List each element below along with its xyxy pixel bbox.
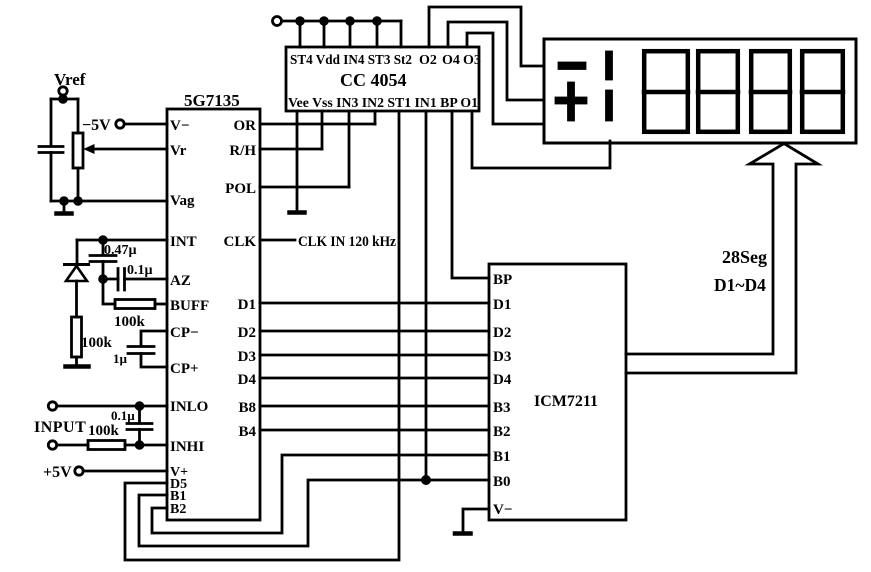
svg-text:D1~D4: D1~D4 xyxy=(714,275,766,295)
wire Vss stub xyxy=(321,111,324,149)
svg-text:ICM7211: ICM7211 xyxy=(534,393,598,410)
IC U3 ICM7211 body xyxy=(489,264,626,520)
terminal top rail xyxy=(273,17,282,26)
potentiometer RP1 xyxy=(73,133,83,168)
IC U2 CC4054 body xyxy=(286,47,479,111)
svg-text:28Seg: 28Seg xyxy=(722,247,767,267)
svg-text:D3: D3 xyxy=(493,349,511,365)
ground below Vref divider xyxy=(63,201,66,212)
capacitor C2 0.47u xyxy=(90,256,116,262)
wire ST4 stub xyxy=(299,21,302,47)
wire B8 to B3 xyxy=(260,405,489,408)
wire top rail xyxy=(282,20,402,23)
svg-text:Vee Vss IN3 IN2 ST1 IN1 BP O1: Vee Vss IN3 IN2 ST1 IN1 BP O1 xyxy=(288,96,478,111)
terminal -5V xyxy=(116,120,124,128)
svg-text:D3: D3 xyxy=(238,349,256,365)
ground below ICM7211 xyxy=(455,531,471,536)
wire BP CC4054 to ICM7211 xyxy=(452,111,489,278)
svg-text:O3: O3 xyxy=(463,53,481,68)
svg-text:B2: B2 xyxy=(170,502,186,517)
wire Vdd stub xyxy=(323,21,326,47)
capacitor C2 0.47u lead xyxy=(102,240,105,255)
svg-text:0.1µ: 0.1µ xyxy=(127,263,153,278)
capacitor C1 xyxy=(39,147,63,153)
wire CP- xyxy=(141,331,167,346)
diode VD1 xyxy=(65,263,89,266)
capacitor C2 lower lead xyxy=(102,262,105,280)
wire O1 to display backplane xyxy=(472,111,610,168)
wire O3 to display xyxy=(467,33,544,124)
capacitor C4 1u xyxy=(128,347,154,354)
wire right branch lower xyxy=(77,168,80,201)
svg-text:R/H: R/H xyxy=(229,143,256,159)
svg-text:POL: POL xyxy=(225,181,256,197)
wire O2 to display xyxy=(429,7,544,66)
wire POL to IN3 xyxy=(260,186,349,189)
svg-text:O2: O2 xyxy=(419,53,437,68)
LCD digit D1 xyxy=(644,51,688,132)
LCD display DS1 body xyxy=(544,39,856,143)
wire left branch upper xyxy=(50,99,53,146)
wire CP+ xyxy=(141,354,167,368)
wire St2 stub xyxy=(400,21,403,47)
svg-text:B3: B3 xyxy=(493,400,511,416)
node IN4 rail junction xyxy=(347,18,354,25)
svg-text:BUFF: BUFF xyxy=(170,298,209,314)
wire left branch lower xyxy=(50,153,53,202)
svg-text:CP+: CP+ xyxy=(170,361,199,377)
svg-text:D1: D1 xyxy=(238,297,256,313)
svg-text:D1: D1 xyxy=(493,297,511,313)
svg-text:0.1µ: 0.1µ xyxy=(111,408,135,423)
svg-text:V−: V− xyxy=(493,502,512,518)
svg-text:B2: B2 xyxy=(493,424,511,440)
wire INHI right xyxy=(125,444,167,447)
LCD digit D3 xyxy=(751,51,790,132)
svg-text:Vr: Vr xyxy=(170,143,187,159)
svg-text:OR: OR xyxy=(234,118,257,134)
wire IN4 stub xyxy=(349,21,352,47)
svg-text:INT: INT xyxy=(170,234,197,250)
wire D3 bus xyxy=(260,354,489,357)
svg-text:100k: 100k xyxy=(114,314,146,330)
node IN1-B0 junction xyxy=(422,476,429,483)
wire B2 route xyxy=(152,455,489,533)
wire INHI left xyxy=(57,444,88,447)
svg-text:0.47µ: 0.47µ xyxy=(104,243,137,258)
svg-text:+5V: +5V xyxy=(43,464,72,481)
wire CLK stub xyxy=(260,239,295,242)
ground below Vee xyxy=(290,210,305,215)
node Vdd rail junction xyxy=(321,18,328,25)
wire INT left drop xyxy=(76,240,79,263)
node ST4 rail junction xyxy=(297,18,304,25)
wire Vref stub xyxy=(62,95,65,99)
wire INT xyxy=(77,239,167,242)
svg-text:Vag: Vag xyxy=(170,193,195,209)
terminal INLO xyxy=(48,402,56,410)
svg-text:AZ: AZ xyxy=(170,273,191,289)
wiper arrowhead xyxy=(85,145,95,153)
node INHI junction xyxy=(136,442,143,449)
wire AZ to C3 xyxy=(103,278,118,281)
svg-text:INPUT: INPUT xyxy=(34,419,86,436)
svg-text:100k: 100k xyxy=(88,423,120,439)
wire AZ down to R2 xyxy=(103,279,115,304)
svg-text:1µ: 1µ xyxy=(113,351,128,366)
resistor R2 100k xyxy=(115,300,155,309)
svg-text:INHI: INHI xyxy=(170,439,204,455)
node Vag-ground junction xyxy=(61,198,68,205)
wire IN2 stub xyxy=(374,111,377,124)
terminal INHI xyxy=(48,441,56,449)
wire ST3 stub xyxy=(376,21,379,47)
capacitor C5 0.1u leads xyxy=(138,406,141,445)
node ST3 rail junction xyxy=(374,18,381,25)
svg-text:CLK IN 120 kHz: CLK IN 120 kHz xyxy=(298,234,396,250)
svg-text:5G7135: 5G7135 xyxy=(184,91,240,110)
node AZ junction xyxy=(100,276,107,283)
resistor R1 100k xyxy=(72,317,82,357)
wire IN3 stub xyxy=(348,111,351,187)
svg-text:D4: D4 xyxy=(238,372,257,388)
svg-text:B4: B4 xyxy=(238,424,256,440)
svg-text:B0: B0 xyxy=(493,474,511,490)
wire IN1 drop xyxy=(425,111,428,480)
node Vref junction xyxy=(60,96,67,103)
svg-text:Vref: Vref xyxy=(54,70,86,89)
svg-text:B8: B8 xyxy=(238,400,256,416)
IC U1 5G7135 body xyxy=(167,109,260,520)
svg-text:INLO: INLO xyxy=(170,399,208,415)
capacitor C5 0.1u xyxy=(127,424,152,430)
wire D4 bus xyxy=(260,377,489,380)
LCD plus segment xyxy=(556,98,586,103)
wire OR to IN2 xyxy=(260,123,375,126)
svg-text:D2: D2 xyxy=(238,325,256,341)
svg-text:V−: V− xyxy=(170,118,189,134)
wire segment bus to arrow xyxy=(626,144,818,374)
wire +5V to V+ xyxy=(83,470,167,473)
wire Vref top split xyxy=(51,98,78,101)
node INT junction xyxy=(100,237,107,244)
svg-text:ST4 Vdd IN4 ST3 St2: ST4 Vdd IN4 ST3 St2 xyxy=(290,53,412,68)
ground below R1 xyxy=(66,364,89,369)
wire B1 route xyxy=(139,480,489,546)
wire Vr wiper xyxy=(92,148,167,151)
resistor R3 100k xyxy=(88,441,125,450)
svg-text:100k: 100k xyxy=(81,335,113,351)
LCD digit D2 xyxy=(698,51,738,132)
svg-text:CC 4054: CC 4054 xyxy=(340,70,407,90)
wire O4 to display xyxy=(448,22,544,100)
wire -5V to V- pin xyxy=(124,123,167,126)
wire Vee to ground xyxy=(296,111,299,211)
terminal +5V xyxy=(75,467,83,475)
wire V- to ground xyxy=(463,509,489,532)
svg-text:D4: D4 xyxy=(493,372,512,388)
wire D2 bus xyxy=(260,330,489,333)
node INLO junction xyxy=(136,403,143,410)
svg-text:CP−: CP− xyxy=(170,325,199,341)
svg-text:BP: BP xyxy=(493,272,512,288)
node pot-Vag junction xyxy=(75,198,82,205)
svg-text:O4: O4 xyxy=(442,53,460,68)
wire ST1 to D5 route xyxy=(125,111,399,560)
wire D1 bus xyxy=(260,302,489,305)
wire R2 to BUFF pin xyxy=(155,303,167,306)
capacitor C3 0.1u xyxy=(118,269,125,291)
wire diode to resistor xyxy=(75,281,78,317)
svg-text:CLK: CLK xyxy=(223,234,256,250)
LCD minus segment xyxy=(559,63,585,69)
LCD digit D4 xyxy=(802,51,843,132)
wire resistor to ground xyxy=(75,357,78,365)
wire C3 to AZ pin xyxy=(125,278,168,281)
wire INLO xyxy=(57,405,167,408)
LCD digit 1 segments xyxy=(607,52,612,79)
terminal Vref xyxy=(59,87,67,95)
svg-text:−5V: −5V xyxy=(82,117,111,134)
wire R/H to Vss xyxy=(260,148,322,151)
wire right branch upper xyxy=(77,99,80,133)
wire Vag xyxy=(51,200,167,203)
svg-text:D2: D2 xyxy=(493,325,511,341)
wire B4 to B2 xyxy=(260,429,489,432)
svg-text:B1: B1 xyxy=(493,449,511,465)
